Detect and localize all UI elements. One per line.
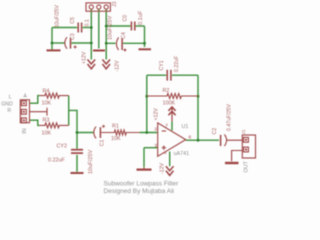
svg-text:R4: R4 xyxy=(43,88,50,94)
svg-text:CY2: CY2 xyxy=(57,144,68,150)
svg-text:0.47uF/25V: 0.47uF/25V xyxy=(227,104,233,131)
svg-text:0.1: 0.1 xyxy=(84,19,90,26)
svg-text:IN: IN xyxy=(22,128,28,133)
svg-text:10uF/25V: 10uF/25V xyxy=(88,149,94,174)
svg-text:uA741: uA741 xyxy=(174,151,190,157)
svg-text:L: L xyxy=(9,94,12,100)
svg-text:-12V: -12V xyxy=(115,60,121,71)
svg-text:Subwoofer Lowpass Filter: Subwoofer Lowpass Filter xyxy=(104,181,180,188)
svg-text:R3: R3 xyxy=(43,117,50,123)
svg-text:C3: C3 xyxy=(70,33,76,40)
svg-text:C0: C0 xyxy=(123,15,129,22)
svg-text:+12V: +12V xyxy=(82,51,88,64)
svg-text:Designed By Mujtaba Ali: Designed By Mujtaba Ali xyxy=(104,188,174,195)
svg-text:R2: R2 xyxy=(163,88,170,94)
svg-text:C5: C5 xyxy=(70,17,76,24)
svg-text:GND: GND xyxy=(1,102,13,108)
svg-text:J1: J1 xyxy=(241,129,247,134)
svg-text:C1: C1 xyxy=(99,140,105,147)
svg-text:R: R xyxy=(7,108,11,114)
svg-text:10K: 10K xyxy=(42,100,52,106)
svg-text:7: 7 xyxy=(165,123,168,129)
svg-text:R1: R1 xyxy=(112,123,119,129)
svg-text:6: 6 xyxy=(189,134,192,140)
svg-text:J3: J3 xyxy=(112,1,118,7)
svg-text:+12V: +12V xyxy=(154,108,160,121)
svg-text:10uF/25V: 10uF/25V xyxy=(107,15,113,40)
svg-text:OUT: OUT xyxy=(244,160,250,172)
svg-text:10uF/25V: 10uF/25V xyxy=(55,4,61,27)
svg-text:0.1uF: 0.1uF xyxy=(138,10,144,25)
svg-text:100K: 100K xyxy=(163,101,176,107)
svg-text:0.22uF: 0.22uF xyxy=(48,158,65,164)
svg-text:0.22uF: 0.22uF xyxy=(174,56,180,72)
svg-text:2: 2 xyxy=(154,127,157,133)
svg-text:-12V: -12V xyxy=(160,163,166,174)
svg-text:4: 4 xyxy=(164,150,167,156)
svg-text:C4: C4 xyxy=(121,32,127,39)
svg-text:CY1: CY1 xyxy=(159,60,165,70)
svg-text:3: 3 xyxy=(154,143,157,149)
svg-text:U1: U1 xyxy=(182,124,189,130)
svg-text:10K: 10K xyxy=(111,136,121,142)
svg-text:10K: 10K xyxy=(42,131,52,137)
svg-text:C2: C2 xyxy=(212,128,218,135)
